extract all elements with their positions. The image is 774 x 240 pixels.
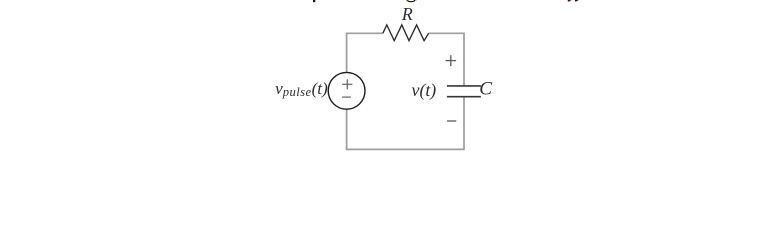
svg-text:v(t): v(t) [412,80,437,101]
cropped text line fragment: bottom loop of 'g' [406,0,416,2]
resistor R (zigzag) [383,25,429,41]
minus polarity mark below capacitor [447,120,456,122]
plus sign inside source [342,79,352,89]
plus polarity mark above capacitor [446,55,457,66]
voltage source V1 (circle) [328,72,365,109]
wire: top-right segment from resistor to right corner down to capacitor [429,33,464,85]
svg-text:C: C [479,79,492,100]
cropped text line fragment: bottom of '(' [568,0,572,2]
cropped text line fragment: bottom of ')' [575,0,579,2]
cropped text line fragment: descender of 'p' [313,0,316,2]
capacitor C plates [447,86,481,97]
wire: top-left segment from left corner to resistor [347,33,383,72]
wire: left lower segment from source to bottom-left corner [347,97,464,149]
svg-text:R: R [401,4,413,24]
svg-text:vpulse(t): vpulse(t) [275,79,328,99]
minus sign inside source [342,96,351,98]
